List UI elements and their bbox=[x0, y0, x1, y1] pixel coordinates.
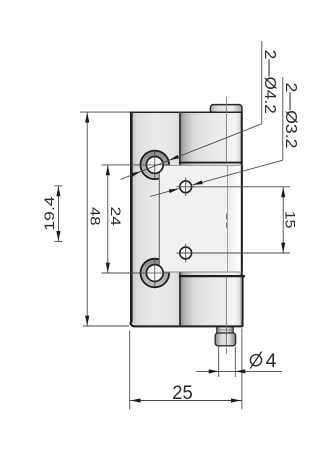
svg-text:4: 4 bbox=[266, 350, 277, 372]
svg-text:15: 15 bbox=[283, 211, 298, 229]
svg-text:25: 25 bbox=[172, 383, 193, 404]
svg-text:19.4: 19.4 bbox=[42, 196, 57, 231]
svg-text:2—Ø3.2: 2—Ø3.2 bbox=[282, 83, 299, 149]
svg-text:48: 48 bbox=[88, 207, 103, 226]
svg-text:2—Ø4.2: 2—Ø4.2 bbox=[261, 50, 278, 114]
svg-text:24: 24 bbox=[108, 207, 123, 227]
